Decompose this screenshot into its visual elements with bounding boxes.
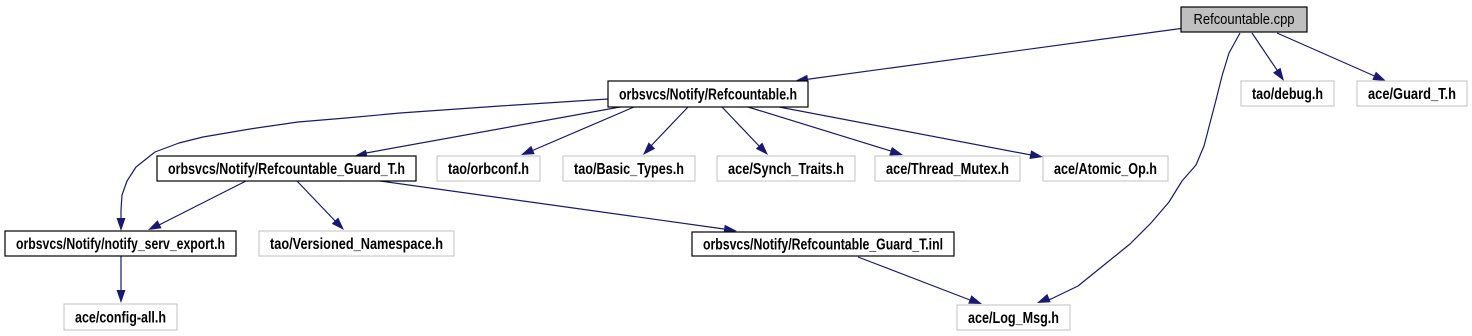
svg-text:tao/orbconf.h: tao/orbconf.h — [448, 161, 529, 178]
svg-text:tao/Basic_Types.h: tao/Basic_Types.h — [574, 161, 684, 178]
edge Refcountable.cpp->tao/debug.h — [1252, 33, 1284, 81]
svg-text:ace/Atomic_Op.h: ace/Atomic_Op.h — [1054, 161, 1157, 178]
svg-text:ace/Guard_T.h: ace/Guard_T.h — [1368, 86, 1456, 103]
svg-text:ace/Synch_Traits.h: ace/Synch_Traits.h — [728, 161, 844, 178]
edge orbsvcs/Notify/Refcountable.h->orbsvcs/Notify/Refcountable_Guard_T.h — [354, 107, 620, 158]
edge orbsvcs/Notify/Refcountable.h->tao/orbconf.h — [521, 107, 634, 155]
node orbsvcs/Notify/Refcountable.h — [608, 81, 808, 107]
edge Refcountable.cpp->ace/Log_Msg.h (long curve) — [1037, 33, 1240, 303]
node ace/Log_Msg.h — [957, 305, 1070, 330]
node ace/Atomic_Op.h — [1043, 156, 1168, 181]
edge Refcountable.cpp->ace/Guard_T.h — [1277, 33, 1386, 81]
svg-text:orbsvcs/Notify/Refcountable.h: orbsvcs/Notify/Refcountable.h — [619, 87, 797, 104]
edge orbsvcs/Notify/Refcountable_Guard_T.h->orbsvcs/Notify/notify_serv_export.h — [148, 181, 246, 230]
node orbsvcs/Notify/Refcountable_Guard_T.h — [157, 156, 416, 181]
svg-text:orbsvcs/Notify/notify_serv_exp: orbsvcs/Notify/notify_serv_export.h — [16, 236, 225, 253]
svg-text:ace/Log_Msg.h: ace/Log_Msg.h — [968, 310, 1059, 327]
node tao/Basic_Types.h — [563, 156, 695, 181]
svg-text:ace/config-all.h: ace/config-all.h — [75, 310, 166, 327]
svg-text:tao/Versioned_Namespace.h: tao/Versioned_Namespace.h — [270, 236, 443, 253]
edge orbsvcs/Notify/Refcountable.h->orbsvcs/Notify/notify_serv_export.h (long curve) — [117, 99, 609, 231]
edge orbsvcs/Notify/notify_serv_export.h->ace/config-all.h — [117, 256, 126, 303]
svg-text:tao/debug.h: tao/debug.h — [1252, 86, 1323, 103]
edge Refcountable.cpp->orbsvcs/Notify/Refcountable.h — [795, 29, 1181, 84]
svg-text:orbsvcs/Notify/Refcountable_Gu: orbsvcs/Notify/Refcountable_Guard_T.h — [168, 161, 405, 178]
edge orbsvcs/Notify/Refcountable.h->ace/Synch_Traits.h — [722, 107, 768, 155]
svg-text:orbsvcs/Notify/Refcountable_Gu: orbsvcs/Notify/Refcountable_Guard_T.inl — [703, 237, 943, 254]
edge orbsvcs/Notify/Refcountable_Guard_T.h->tao/Versioned_Namespace.h — [297, 181, 344, 230]
node tao/debug.h — [1241, 81, 1334, 106]
edge orbsvcs/Notify/Refcountable.h->tao/Basic_Types.h — [643, 107, 688, 155]
node Refcountable.cpp (root) — [1181, 7, 1307, 32]
node tao/Versioned_Namespace.h — [259, 231, 454, 256]
edge orbsvcs/Notify/Refcountable.h->ace/Thread_Mutex.h — [748, 107, 903, 156]
node ace/config-all.h — [64, 304, 177, 330]
node orbsvcs/Notify/Refcountable_Guard_T.inl — [692, 232, 954, 256]
node ace/Guard_T.h — [1357, 81, 1467, 106]
svg-text:ace/Thread_Mutex.h: ace/Thread_Mutex.h — [886, 161, 1009, 178]
edge orbsvcs/Notify/Refcountable.h->ace/Atomic_Op.h — [779, 107, 1043, 159]
edge orbsvcs/Notify/Refcountable_Guard_T.h->orbsvcs/Notify/Refcountable_Guard_T.inl — [380, 181, 737, 234]
node orbsvcs/Notify/notify_serv_export.h — [5, 231, 236, 256]
svg-text:Refcountable.cpp: Refcountable.cpp — [1194, 11, 1295, 28]
edge orbsvcs/Notify/Refcountable_Guard_T.inl->ace/Log_Msg.h — [858, 257, 982, 304]
node ace/Synch_Traits.h — [717, 156, 855, 181]
node ace/Thread_Mutex.h — [875, 156, 1020, 181]
node tao/orbconf.h — [437, 156, 540, 181]
